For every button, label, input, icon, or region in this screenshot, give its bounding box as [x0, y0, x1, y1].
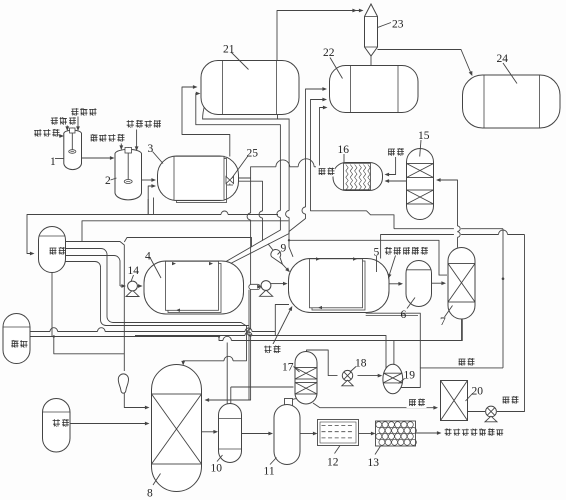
pipe: propylene recycle riser to drum 22 inlet 3	[320, 106, 328, 167]
label leader: 11	[270, 458, 277, 465]
pipe: crossover header upper to right riser	[394, 228, 503, 230]
svg-text:17: 17	[282, 362, 294, 374]
pipe: dryer 12 to pelletizer 13	[359, 432, 376, 436]
svg-text:15: 15	[418, 130, 430, 142]
pipe: reactor 3 outlet drop to crossover	[239, 181, 263, 241]
pipe: web line Hw3 lower	[135, 332, 386, 368]
pipe: column 7 overhead riser to column 15	[436, 178, 460, 247]
pipe: recycle into reactor 3 lower inlet	[148, 184, 156, 214]
pipe: drum 19 outlet riser to propylene return	[401, 366, 503, 388]
drum 19	[383, 364, 403, 394]
pipe: pot 10 overhead riser	[227, 343, 231, 405]
pipe: reactor 3 top riser to flash drum 21	[182, 85, 230, 156]
pipe: elbow from column 17 bottom to stripper 11 neck	[293, 399, 306, 402]
vessel 8 copolymer column	[152, 365, 202, 492]
feed device 9 teardrop nozzle	[271, 250, 283, 265]
label leader: 25	[232, 157, 248, 179]
restrictor bulb on vessel 8 feed	[118, 374, 128, 393]
pipe: column 17 overhead to valve 18 and drum 19	[307, 350, 383, 378]
label leader: liquid additive into reactor 5 outlet	[388, 256, 396, 279]
pipe: reactor 5 bottoms line to right	[366, 313, 421, 368]
pipe: reactor 5 to vessel 6	[389, 282, 403, 286]
pipe: vessel 6 to column 7	[432, 281, 447, 285]
svg-text:19: 19	[404, 370, 416, 382]
label leader: 7	[445, 306, 453, 318]
label: copolymer pellets 共聚聚合物颗粒	[445, 429, 504, 436]
feed arrow: co-catalyst into vessel 2	[119, 144, 123, 151]
reactor 3 first polymerization reactor	[158, 156, 239, 203]
svg-text:24: 24	[497, 53, 509, 65]
svg-text:14: 14	[128, 265, 140, 277]
pipe: hydrogen line 2 with drop to bulb restrictor	[30, 335, 220, 354]
pipe: reactor 4 overhead double transfer line up to drum 21 (line a)	[201, 99, 289, 263]
label leader: 23	[378, 23, 392, 28]
label: ethylene on recycle line 乙烯	[262, 344, 282, 355]
pipe: column 15 to scrubber 16 lower line	[385, 179, 407, 183]
pipe: riser from reactor 5 dome to drum 22 inlet 1	[289, 87, 327, 257]
drum 24	[463, 75, 561, 128]
label leader: 22	[330, 58, 343, 79]
svg-text:23: 23	[392, 19, 404, 31]
label leader: 20	[466, 394, 473, 402]
vessel 1 catalyst prep tank	[64, 128, 82, 170]
label: catalyst 催化剂	[34, 129, 59, 136]
svg-text:12: 12	[327, 457, 339, 469]
reactor 4 horizontal gas phase reactor	[144, 261, 244, 314]
label leader: 10	[217, 455, 223, 462]
pipe: flash pot 10 to stripper 11	[242, 432, 274, 436]
vessel 2 co-catalyst tank	[115, 147, 142, 200]
vessel 6 additive pot	[406, 261, 432, 307]
injection valve 25 on reactor 3	[226, 177, 234, 186]
svg-text:21: 21	[223, 44, 235, 56]
pipe: header H_b from bulb leg to reactor 4 transfer diagonal	[124, 238, 251, 247]
separator 23	[365, 4, 378, 56]
column 17	[295, 352, 317, 404]
label: electron donor 给电子体	[127, 120, 161, 127]
feed arrow: mineral oil into vessel 1	[65, 126, 69, 132]
label leader: 19	[399, 379, 405, 384]
pump after reactor 4	[260, 281, 273, 297]
pipe: mid header into reactor 5 top and to far right riser	[381, 230, 525, 259]
pipe: product line from pelletizer 13	[416, 431, 442, 435]
label leader: 21	[231, 52, 249, 70]
label: propylene at scrubber 16 inlet 丙烯	[316, 166, 335, 177]
hydrogen feed tank	[3, 314, 30, 364]
label leader: 3	[153, 152, 164, 164]
pipe: drum 21 bottom stub to recycle header	[277, 113, 279, 119]
pipe: separator 23 overhead to drum 24	[378, 50, 473, 77]
svg-text:9: 9	[281, 243, 287, 255]
pipe: reactor 4 overhead double transfer line up to drum 21 (line b)	[196, 92, 281, 262]
pump 14	[126, 281, 139, 296]
label leader: 12	[335, 446, 341, 454]
label leader: 1	[55, 158, 64, 160]
pipe: reactor 2 to reactor 3 inlet	[142, 178, 157, 182]
pipe: flash drum 21 overhead line to separator 23	[277, 9, 364, 61]
pipe: propylene tank outlet 1 to bulb drop leg	[66, 242, 125, 372]
pipe: column 17 bottoms propylene line into extruder 20	[313, 403, 438, 410]
pipe: drop leg from valve-25 branch down the middle	[205, 178, 251, 402]
label: propylene at recycle valve 丙烯	[500, 395, 521, 406]
label leader: 9	[278, 252, 281, 255]
flash pot 10	[219, 404, 242, 463]
svg-text:16: 16	[338, 144, 350, 156]
flash drum 21	[201, 61, 299, 115]
label leader: 8	[153, 474, 161, 486]
pipe: hydrogen line 1	[30, 328, 275, 332]
pipe: column 15 to scrubber 16 upper line with propylene drop leg	[385, 157, 396, 176]
feed arrow: electron donor into vessel 2	[135, 130, 139, 152]
pipe: vessel 8 outlet to flash pot 10	[202, 430, 219, 434]
pipe: reactor 3 bottoms drop legs to header H1	[148, 198, 153, 215]
pipe: propylene tank bottom leg	[51, 273, 53, 337]
label: ethylene in tank 乙烯	[53, 419, 69, 426]
pipe: drop leg from bulb to vessel 8 upper-left inlet	[124, 393, 149, 409]
label leader: 5	[376, 256, 378, 272]
pipe: scrubber 16 outlet to injection valve 25 on reactor 3	[236, 159, 334, 178]
label: liquid additive 液体添加剂	[385, 247, 428, 254]
label leader: 24	[503, 63, 517, 84]
valve after extruder 20	[485, 406, 497, 422]
pipe: far right riser to recycle valve	[497, 235, 525, 412]
stripper 11	[274, 399, 300, 465]
pipe: propylene tank outlet 3 to pump 14	[66, 256, 143, 288]
label leader: 2	[111, 178, 117, 180]
label leader: 13	[375, 446, 381, 455]
label: hydrogen in tank 氢气	[11, 340, 27, 347]
label: propylene above column 15 丙烯	[386, 146, 406, 157]
svg-text:7: 7	[440, 316, 446, 328]
feed arrow: catalyst into vessel 1	[59, 134, 64, 138]
svg-text:10: 10	[211, 463, 223, 475]
label leader: 17	[294, 367, 300, 373]
svg-text:3: 3	[148, 143, 154, 155]
feed arrow: mineral grease into vessel 1	[76, 117, 80, 132]
valve 18	[342, 370, 353, 385]
svg-text:18: 18	[355, 358, 367, 370]
ethylene feed tank	[43, 399, 71, 453]
pipe: diagonal feed into reactor 5 lower dome	[272, 305, 293, 348]
label leader: 14	[131, 275, 134, 282]
pipe: stripper 11 to dryer 12	[300, 432, 318, 436]
pipe: extruder 20 to valve and recycle riser	[468, 411, 486, 413]
pipe: web line Hw1 to vessel 8 top feed	[113, 323, 247, 366]
pipe: branch to column 17 lower inlet	[231, 386, 294, 388]
svg-text:2: 2	[105, 175, 111, 187]
svg-text:4: 4	[145, 251, 151, 263]
pipe: crossover header lower to column 7	[288, 239, 447, 275]
pipe: separator 23 bottoms into drum 22	[370, 56, 372, 67]
label leader: 18	[350, 367, 356, 373]
pipe: riser to drum 22 inlet 2 from crossover header	[311, 98, 395, 229]
label leader: 6	[407, 298, 415, 309]
packed column 7	[448, 248, 475, 341]
dryer 12	[318, 420, 359, 446]
label: propylene above extruder 丙烯	[407, 397, 427, 408]
pipe: ethylene tank to vessel 8 lower inlet	[70, 422, 150, 426]
pipe: header H1 from middle bundle to propylene tank	[27, 211, 278, 255]
svg-text:22: 22	[323, 47, 335, 59]
pipe: reactor 4 outlet to pump and reactor 5	[249, 282, 288, 290]
label leader: 4	[150, 258, 161, 279]
svg-text:6: 6	[401, 309, 407, 321]
pipe: ethylene recycle line to vessels 19 and 7	[219, 320, 462, 365]
label leader: 16	[343, 154, 345, 163]
pipe: feed device 9 connections	[268, 244, 290, 272]
label: mineral grease 矿物脂	[71, 108, 96, 115]
pipe: vessel 1 to vessel 2	[82, 156, 115, 160]
pipe: header H2	[82, 221, 289, 242]
svg-text:5: 5	[374, 247, 380, 259]
svg-text:20: 20	[472, 386, 484, 398]
pipe: web line Hw2 to vessel 8 side feed	[106, 290, 249, 400]
pipe: propylene tank outlet 2 down to web line Hw1	[66, 249, 114, 323]
propylene feed tank	[39, 227, 66, 273]
label: propylene near drum 19 丙烯	[456, 357, 476, 368]
svg-text:13: 13	[368, 457, 380, 469]
label leader: 15	[420, 140, 421, 157]
scrubber 16	[333, 163, 383, 191]
svg-text:11: 11	[264, 466, 275, 478]
packed column 15	[407, 149, 434, 220]
drum 22	[330, 66, 419, 113]
reactor 5 horizontal gas phase reactor	[289, 257, 390, 312]
pipe: propylene tank outlet 4 joining web	[66, 262, 107, 326]
svg-text:8: 8	[147, 488, 153, 500]
extruder 20	[441, 381, 468, 421]
label: propylene in tank 丙烯	[50, 247, 66, 254]
svg-text:1: 1	[50, 156, 56, 168]
pipe: right riser x=503 down to propylene line	[502, 229, 505, 366]
label: mineral oil 矿物油	[51, 117, 76, 124]
svg-text:25: 25	[247, 148, 259, 160]
pelletizer 13 with honeycomb screen	[376, 421, 417, 446]
label: co-catalyst 助催化剂	[91, 134, 125, 141]
